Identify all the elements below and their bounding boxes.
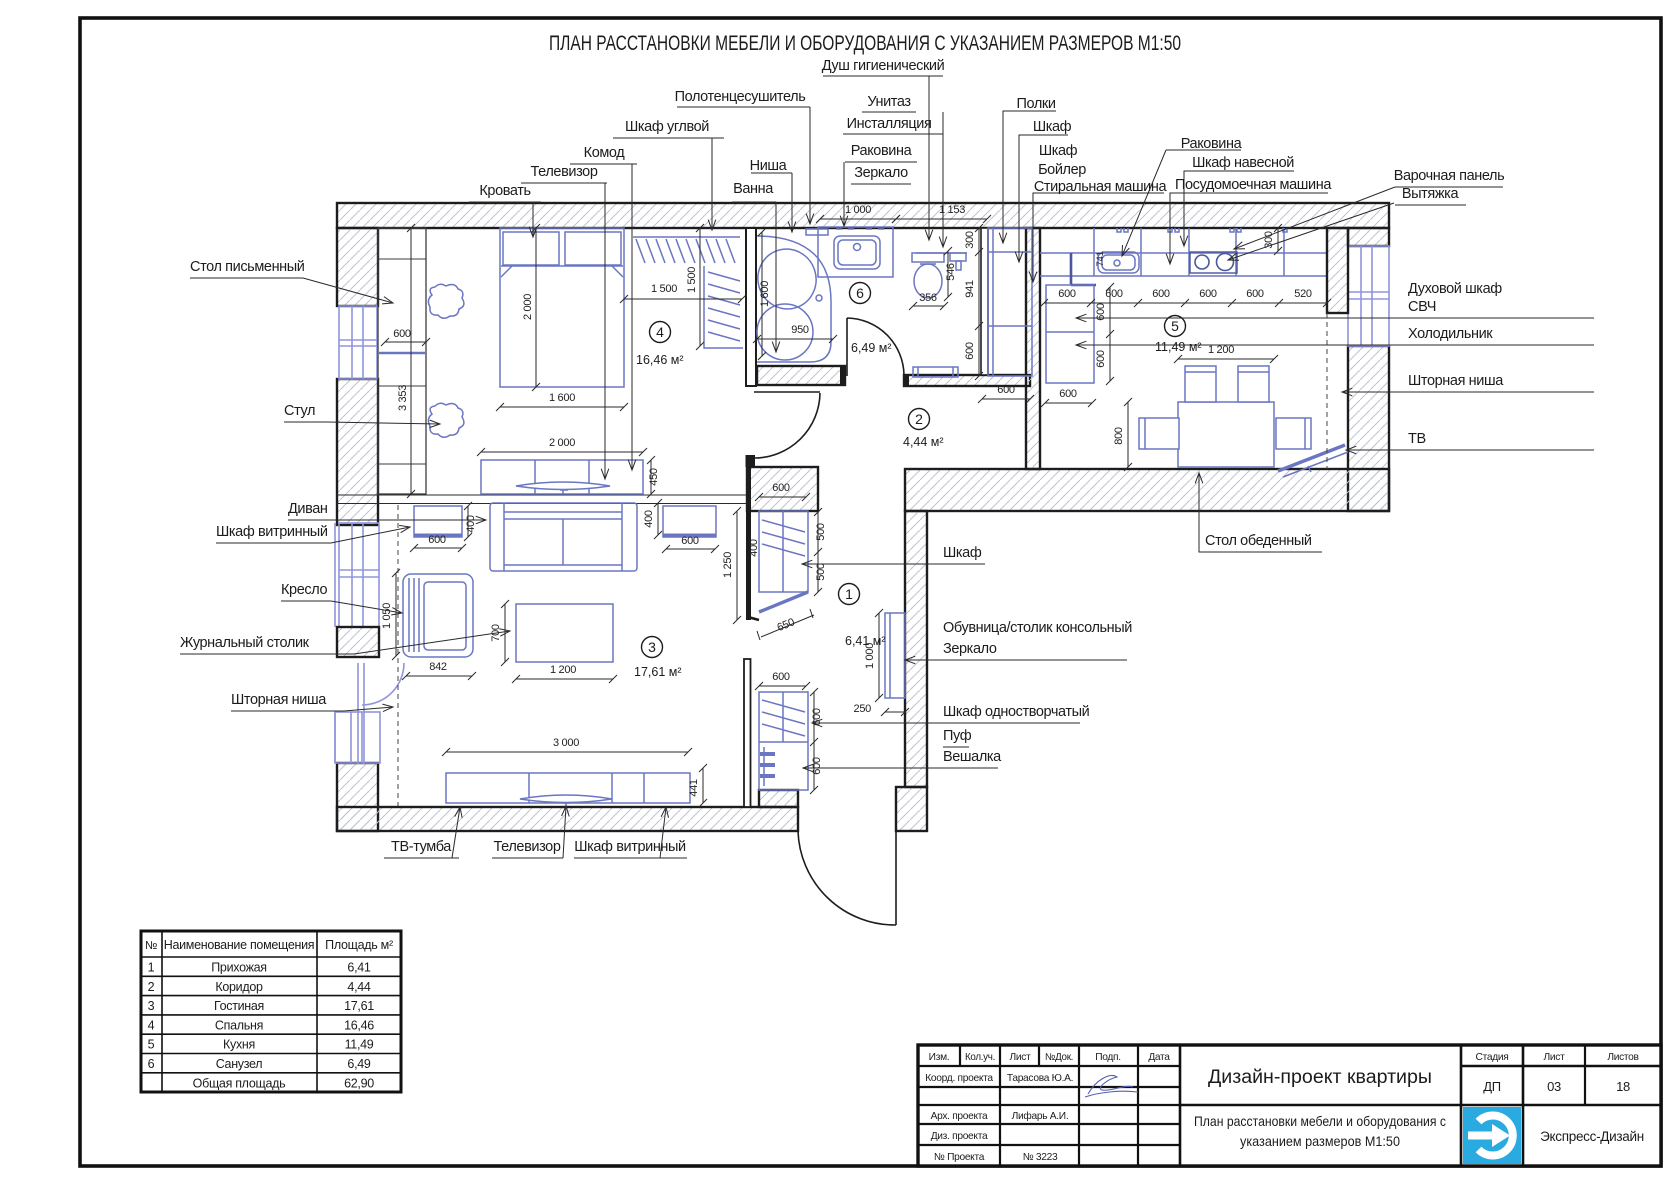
svg-text:2 000: 2 000 bbox=[522, 294, 534, 320]
curtain niche dashed line (kitchen) bbox=[1326, 313, 1328, 469]
svg-text:Инсталляция: Инсталляция bbox=[847, 116, 932, 132]
room area table bbox=[141, 931, 401, 1092]
shoe cabinet bbox=[885, 613, 905, 698]
door: entrance (bottom) bbox=[798, 831, 896, 925]
svg-text:1 600: 1 600 bbox=[759, 281, 771, 307]
wall: right exterior below kitchen window bbox=[1348, 346, 1389, 511]
svg-text:Лифарь А.И.: Лифарь А.И. bbox=[1012, 1110, 1069, 1122]
svg-text:Изм.: Изм. bbox=[929, 1052, 950, 1063]
hallway lower wardrobe bbox=[759, 692, 808, 790]
kitchen lower-left cabinet bbox=[1046, 285, 1094, 383]
svg-text:Шкаф: Шкаф bbox=[1033, 119, 1072, 135]
svg-text:Кресло: Кресло bbox=[281, 582, 327, 598]
dimensions corridor closet bbox=[975, 224, 983, 380]
svg-text:Зеркало: Зеркало bbox=[943, 641, 997, 657]
svg-text:3: 3 bbox=[648, 639, 656, 655]
svg-text:Диз. проекта: Диз. проекта bbox=[931, 1131, 988, 1142]
svg-text:400: 400 bbox=[643, 510, 655, 528]
svg-text:1: 1 bbox=[148, 961, 155, 975]
room marker 6 bbox=[850, 283, 871, 304]
kitchen hob bbox=[1190, 252, 1237, 273]
svg-text:Дизайн-проект квартиры: Дизайн-проект квартиры bbox=[1208, 1067, 1432, 1088]
svg-text:Дата: Дата bbox=[1148, 1052, 1170, 1063]
svg-text:1 200: 1 200 bbox=[550, 664, 576, 676]
wall: bottom band under corridor and kitchen bbox=[905, 469, 1389, 511]
svg-text:741: 741 bbox=[1095, 252, 1106, 267]
svg-text:Душ гигиенический: Душ гигиенический bbox=[822, 58, 945, 74]
svg-text:300: 300 bbox=[964, 231, 976, 249]
svg-text:546: 546 bbox=[945, 263, 957, 281]
svg-text:1: 1 bbox=[845, 586, 853, 602]
wall: kitchen left partition bbox=[1026, 228, 1040, 469]
svg-text:1 000: 1 000 bbox=[845, 204, 871, 216]
svg-text:Санузел: Санузел bbox=[216, 1057, 263, 1071]
svg-text:Полотенцесушитель: Полотенцесушитель bbox=[675, 89, 806, 105]
svg-text:356: 356 bbox=[919, 292, 937, 304]
bathroom corner bath bbox=[757, 236, 831, 362]
svg-text:950: 950 bbox=[791, 324, 809, 336]
svg-text:450: 450 bbox=[648, 468, 660, 486]
hallway closet niche wall bbox=[748, 511, 759, 620]
svg-text:ТВ-тумба: ТВ-тумба bbox=[391, 839, 452, 855]
corridor bench bbox=[913, 367, 958, 377]
svg-text:2: 2 bbox=[148, 980, 155, 994]
signature bbox=[1085, 1076, 1138, 1097]
svg-text:3 353: 3 353 bbox=[397, 385, 409, 411]
wall: partition vertical at corridor door bbox=[746, 455, 756, 467]
svg-text:441: 441 bbox=[688, 779, 700, 797]
svg-text:600: 600 bbox=[393, 328, 411, 340]
wall: hallway right entrance block bbox=[896, 787, 927, 831]
room marker 3 bbox=[642, 637, 663, 658]
wall: bathroom bottom left segment bbox=[757, 366, 845, 385]
svg-text:Стадия: Стадия bbox=[1476, 1052, 1509, 1063]
svg-text:Листов: Листов bbox=[1607, 1052, 1638, 1063]
hallway upper closet bbox=[759, 511, 808, 592]
svg-text:6,41 м²: 6,41 м² bbox=[845, 634, 886, 648]
svg-text:6,49: 6,49 bbox=[347, 1057, 370, 1071]
coffee table bbox=[516, 604, 613, 662]
svg-text:500: 500 bbox=[815, 523, 827, 541]
armchair bbox=[403, 574, 473, 657]
svg-text:№ 3223: № 3223 bbox=[1023, 1152, 1058, 1163]
svg-text:Журнальный столик: Журнальный столик bbox=[180, 635, 310, 651]
svg-text:3 000: 3 000 bbox=[553, 737, 579, 749]
kitchen corner TV diagonal bbox=[1278, 445, 1345, 471]
svg-text:Варочная панель: Варочная панель bbox=[1394, 168, 1505, 184]
svg-text:Шкаф: Шкаф bbox=[943, 545, 982, 561]
svg-text:03: 03 bbox=[1547, 1079, 1561, 1094]
bedroom dresser (Комод) bbox=[481, 460, 643, 494]
svg-text:Духовой шкаф: Духовой шкаф bbox=[1408, 281, 1502, 297]
svg-text:План расстановки мебели и обор: План расстановки мебели и оборудования с bbox=[1194, 1113, 1446, 1129]
svg-text:Коорд. проекта: Коорд. проекта bbox=[925, 1073, 993, 1084]
svg-text:Площадь м²: Площадь м² bbox=[325, 938, 393, 952]
svg-text:2 000: 2 000 bbox=[549, 437, 575, 449]
svg-text:Раковина: Раковина bbox=[851, 143, 913, 159]
svg-text:6: 6 bbox=[148, 1057, 155, 1071]
svg-text:Диван: Диван bbox=[288, 501, 328, 517]
dining chairs sides bbox=[1139, 418, 1179, 449]
svg-text:Арх. проекта: Арх. проекта bbox=[931, 1111, 988, 1122]
wall: small block left of entrance door bbox=[759, 790, 798, 807]
wall: block between corridor and hallway closet bbox=[747, 467, 818, 511]
svg-text:16,46 м²: 16,46 м² bbox=[636, 353, 684, 367]
dimensions hallway bbox=[755, 493, 810, 501]
bedroom TV on dresser bbox=[516, 482, 610, 490]
svg-text:Телевизор: Телевизор bbox=[531, 164, 598, 180]
svg-text:Спальня: Спальня bbox=[215, 1018, 263, 1032]
wall: right exterior above kitchen window bbox=[1348, 228, 1389, 246]
svg-text:16,46: 16,46 bbox=[344, 1018, 374, 1032]
wall: bathroom left partition bbox=[746, 228, 756, 386]
svg-text:600: 600 bbox=[1199, 288, 1217, 300]
window: living room french window bbox=[339, 523, 379, 627]
svg-text:941: 941 bbox=[964, 280, 976, 298]
room marker 4 bbox=[650, 322, 671, 343]
wall: bathroom right thin partition bbox=[981, 228, 988, 375]
desk chair upper bbox=[428, 284, 464, 318]
svg-text:Шторная ниша: Шторная ниша bbox=[1408, 373, 1504, 389]
svg-text:600: 600 bbox=[1246, 288, 1264, 300]
kitchen corner unit bbox=[1071, 253, 1096, 285]
svg-text:600: 600 bbox=[1058, 288, 1076, 300]
svg-text:Ниша: Ниша bbox=[750, 158, 788, 174]
kitchen sink bbox=[1098, 252, 1139, 273]
svg-text:1 500: 1 500 bbox=[686, 267, 698, 293]
svg-text:Лист: Лист bbox=[1010, 1052, 1032, 1063]
svg-text:Наименование помещения: Наименование помещения bbox=[164, 938, 315, 952]
svg-text:Унитаз: Унитаз bbox=[867, 94, 911, 110]
towel dryer bbox=[806, 229, 828, 235]
svg-text:600: 600 bbox=[1095, 350, 1107, 368]
svg-text:600: 600 bbox=[772, 671, 790, 683]
svg-text:520: 520 bbox=[1294, 288, 1312, 300]
svg-text:ТВ: ТВ bbox=[1408, 431, 1426, 447]
svg-text:1 200: 1 200 bbox=[1208, 344, 1234, 356]
svg-text:4,44 м²: 4,44 м² bbox=[903, 435, 944, 449]
room marker 5 bbox=[1165, 316, 1186, 337]
TV stand row bbox=[446, 773, 690, 803]
corridor tall closet bbox=[988, 228, 1032, 376]
svg-text:Шторная ниша: Шторная ниша bbox=[231, 692, 327, 708]
door: corridor to living room bbox=[754, 392, 820, 458]
dining table bbox=[1178, 402, 1274, 467]
svg-text:указанием размеров М1:50: указанием размеров М1:50 bbox=[1240, 1133, 1400, 1149]
door: bathroom bbox=[847, 318, 904, 376]
svg-text:600: 600 bbox=[1059, 388, 1077, 400]
svg-text:СВЧ: СВЧ bbox=[1408, 299, 1436, 315]
svg-text:5: 5 bbox=[1171, 318, 1179, 334]
wall block between window and balcony door bbox=[337, 627, 379, 657]
title block bbox=[918, 1045, 1661, 1166]
washbasin counter bbox=[818, 227, 893, 277]
hallway closet sliding front bbox=[759, 592, 808, 612]
svg-text:600: 600 bbox=[772, 482, 790, 494]
svg-text:1 500: 1 500 bbox=[651, 283, 677, 295]
svg-text:ПЛАН РАССТАНОВКИ МЕБЕЛИ И ОБОР: ПЛАН РАССТАНОВКИ МЕБЕЛИ И ОБОРУДОВАНИЯ С… bbox=[549, 32, 1181, 55]
svg-text:1 250: 1 250 bbox=[722, 552, 734, 578]
wall: bottom exterior (living room) bbox=[337, 807, 798, 831]
svg-text:Шкаф витринный: Шкаф витринный bbox=[216, 524, 328, 540]
svg-text:11,49: 11,49 bbox=[345, 1038, 374, 1052]
installation unit bbox=[950, 253, 966, 261]
svg-text:Пуф: Пуф bbox=[943, 728, 972, 744]
svg-text:Полки: Полки bbox=[1016, 96, 1055, 112]
room marker 2 bbox=[909, 409, 930, 430]
wall: left exterior lower corner bbox=[337, 763, 378, 831]
svg-text:№Док.: №Док. bbox=[1045, 1052, 1073, 1063]
svg-text:17,61: 17,61 bbox=[344, 999, 374, 1013]
svg-text:6: 6 bbox=[856, 285, 864, 301]
balcony door (blue) bbox=[358, 663, 404, 764]
svg-text:№: № bbox=[145, 940, 157, 952]
wall: bedroom/livingroom partition bbox=[337, 495, 746, 504]
wall: hallway right pier bbox=[905, 511, 927, 787]
svg-text:Вешалка: Вешалка bbox=[943, 749, 1002, 765]
svg-text:Кровать: Кровать bbox=[479, 183, 530, 199]
svg-text:Бойлер: Бойлер bbox=[1038, 162, 1086, 178]
desk chair lower (Стул) bbox=[428, 403, 464, 437]
coat hooks bbox=[763, 747, 765, 786]
display cabinet small bbox=[414, 506, 462, 537]
dimensions bedroom bbox=[381, 338, 430, 346]
svg-text:Прихожая: Прихожая bbox=[211, 961, 267, 975]
svg-text:600: 600 bbox=[964, 342, 976, 360]
svg-text:Шкаф навесной: Шкаф навесной bbox=[1192, 155, 1294, 171]
svg-text:4,44: 4,44 bbox=[347, 980, 370, 994]
svg-text:Посудомоечная машина: Посудомоечная машина bbox=[1175, 177, 1332, 193]
svg-text:500: 500 bbox=[815, 563, 827, 581]
svg-text:Общая площадь: Общая площадь bbox=[193, 1076, 286, 1090]
svg-text:6,49 м²: 6,49 м² bbox=[851, 341, 892, 355]
svg-text:5: 5 bbox=[148, 1038, 155, 1052]
svg-text:Гостиная: Гостиная bbox=[214, 999, 264, 1013]
wall: top exterior bbox=[337, 203, 1389, 228]
svg-text:800: 800 bbox=[1113, 427, 1125, 445]
wall: living/hall partition lower bbox=[744, 659, 751, 807]
svg-text:18: 18 bbox=[1616, 1079, 1630, 1094]
window outer glazing line bbox=[334, 523, 336, 763]
svg-text:250: 250 bbox=[854, 703, 872, 715]
svg-text:№ Проекта: № Проекта bbox=[934, 1152, 985, 1163]
svg-text:4: 4 bbox=[656, 324, 664, 340]
svg-text:3: 3 bbox=[148, 999, 155, 1013]
svg-text:842: 842 bbox=[429, 661, 447, 673]
kitchen right pilaster bbox=[1327, 228, 1348, 313]
kitchen counter row bbox=[1040, 228, 1327, 276]
svg-text:17,61 м²: 17,61 м² bbox=[634, 665, 682, 679]
room marker 1 bbox=[839, 584, 860, 605]
corner wardrobe vertical section bbox=[704, 266, 743, 348]
svg-text:400: 400 bbox=[465, 515, 477, 533]
svg-text:6,41: 6,41 bbox=[347, 961, 370, 975]
dining chairs top bbox=[1185, 366, 1216, 402]
svg-text:600: 600 bbox=[428, 534, 446, 546]
svg-text:4: 4 bbox=[148, 1018, 155, 1032]
svg-text:62,90: 62,90 bbox=[344, 1076, 374, 1090]
svg-text:600: 600 bbox=[1152, 288, 1170, 300]
svg-text:Лист: Лист bbox=[1544, 1052, 1566, 1063]
svg-text:2: 2 bbox=[915, 411, 923, 427]
svg-text:11,49 м²: 11,49 м² bbox=[1155, 340, 1202, 354]
svg-text:Шкаф углвой: Шкаф углвой bbox=[625, 119, 709, 135]
sofa bbox=[490, 503, 637, 571]
living room curtain niche dashed bbox=[397, 505, 399, 806]
toilet bbox=[912, 253, 944, 262]
svg-text:400: 400 bbox=[748, 539, 760, 557]
svg-text:Шкаф: Шкаф bbox=[1039, 143, 1078, 159]
sofa side table bbox=[663, 506, 716, 537]
window: living room small window bbox=[335, 712, 380, 763]
svg-text:Обувница/столик консольный: Обувница/столик консольный bbox=[943, 620, 1132, 636]
svg-text:Стол письменный: Стол письменный bbox=[190, 259, 305, 275]
svg-text:Вытяжка: Вытяжка bbox=[1402, 186, 1460, 202]
svg-text:1 600: 1 600 bbox=[549, 392, 575, 404]
bedroom desk bbox=[378, 228, 426, 494]
svg-text:Зеркало: Зеркало bbox=[854, 165, 908, 181]
svg-text:Кол.уч.: Кол.уч. bbox=[965, 1052, 995, 1063]
svg-text:600: 600 bbox=[681, 535, 699, 547]
svg-text:Комод: Комод bbox=[584, 145, 626, 161]
svg-text:600: 600 bbox=[1105, 288, 1123, 300]
wall: bathroom bottom right segment bbox=[904, 375, 1030, 386]
dimensions living room bbox=[410, 544, 466, 552]
svg-text:Шкаф одностворчатый: Шкаф одностворчатый bbox=[943, 704, 1090, 720]
svg-text:Кухня: Кухня bbox=[223, 1038, 255, 1052]
wall: left exterior upper (bedroom) bbox=[337, 228, 378, 306]
dimensions bathroom bbox=[816, 215, 900, 223]
window: kitchen right wall bbox=[1348, 246, 1389, 346]
svg-text:Тарасова Ю.А.: Тарасова Ю.А. bbox=[1007, 1073, 1073, 1084]
svg-text:600: 600 bbox=[997, 384, 1015, 396]
logo Экспресс-Дизайн bbox=[1463, 1107, 1521, 1164]
svg-text:ДП: ДП bbox=[1483, 1079, 1501, 1094]
dimensions kitchen bbox=[1040, 299, 1331, 307]
bed bbox=[500, 228, 624, 387]
living room TV bbox=[520, 795, 612, 803]
wall: left exterior mid (between windows) bbox=[337, 379, 378, 525]
svg-text:Коридор: Коридор bbox=[215, 980, 263, 994]
kitchen wall vents bbox=[1117, 228, 1287, 232]
svg-text:Телевизор: Телевизор bbox=[494, 839, 561, 855]
svg-text:Стол обеденный: Стол обеденный bbox=[1205, 533, 1312, 549]
svg-text:1 050: 1 050 bbox=[381, 603, 393, 629]
svg-text:Стул: Стул bbox=[284, 403, 315, 419]
svg-text:Шкаф витринный: Шкаф витринный bbox=[574, 839, 686, 855]
svg-text:Холодильник: Холодильник bbox=[1408, 326, 1493, 342]
wardrobe hanging rail bbox=[633, 236, 740, 238]
svg-text:Подп.: Подп. bbox=[1095, 1052, 1121, 1063]
window: bedroom left wall bbox=[339, 306, 377, 379]
svg-text:Ванна: Ванна bbox=[733, 181, 774, 197]
svg-text:Экспресс-Дизайн: Экспресс-Дизайн bbox=[1540, 1129, 1644, 1144]
